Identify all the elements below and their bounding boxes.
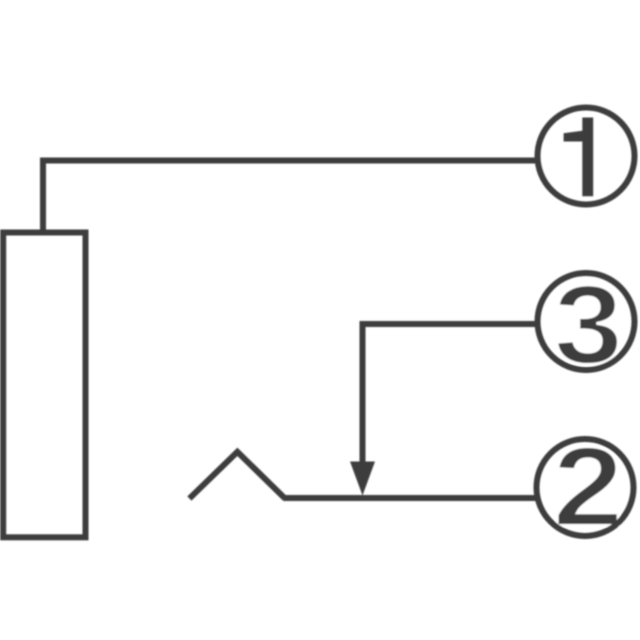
wire pin1: from jack top to circle 1 bbox=[43, 161, 537, 233]
pin circle 1 bbox=[538, 108, 635, 205]
wire pin2: tip contact line to circle 2 bbox=[283, 495, 537, 501]
jack body (sleeve contact rectangle) bbox=[3, 233, 85, 538]
pin number 1 bbox=[564, 118, 594, 197]
tip spring contact (bent zigzag) bbox=[189, 452, 284, 499]
arrowhead bbox=[350, 462, 375, 496]
pin circle 2 bbox=[537, 439, 634, 536]
pin circle 3 bbox=[538, 273, 635, 370]
wire pin3: from circle 3 with arrow down bbox=[363, 324, 538, 464]
